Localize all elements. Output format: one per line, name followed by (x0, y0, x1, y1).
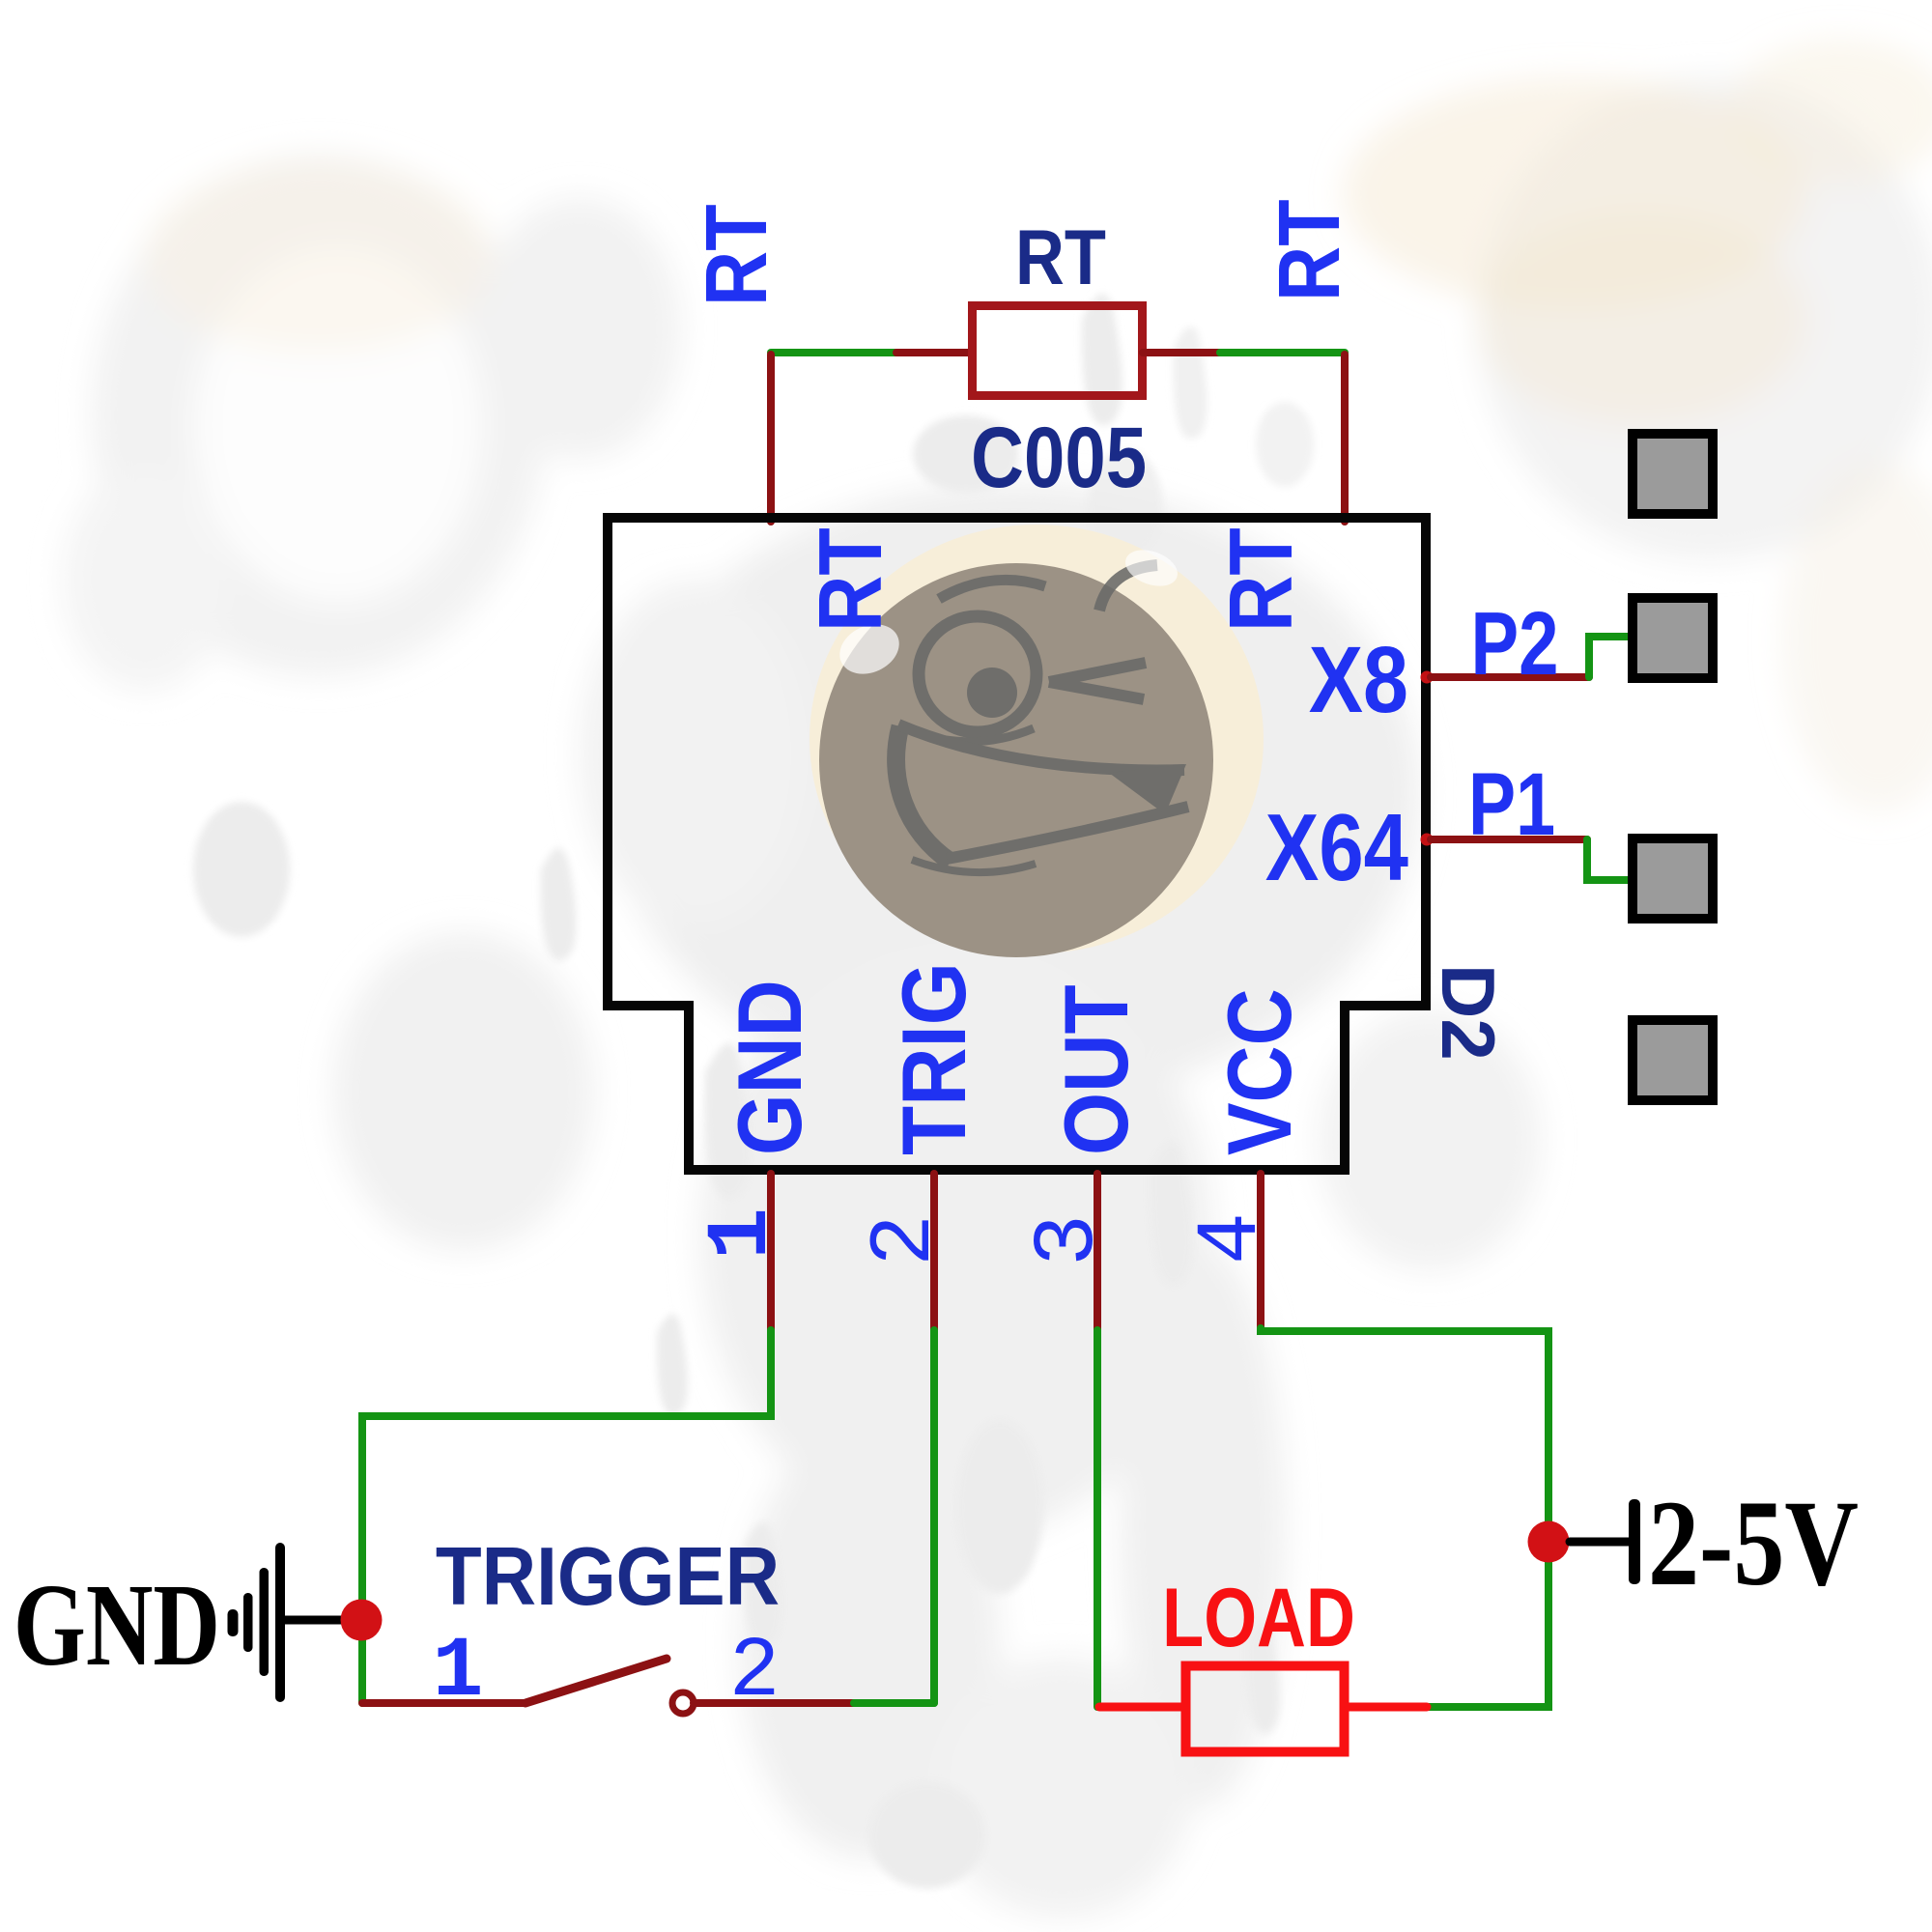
svg-text:2: 2 (729, 1625, 781, 1720)
watermark mascot face (819, 543, 1213, 957)
junction dot VCC supply node (1528, 1521, 1570, 1563)
pad square top (1633, 434, 1713, 514)
pin 3 dark-red wire (1094, 1174, 1101, 1332)
resistor RT (973, 306, 1143, 396)
switch S1 contact circle (672, 1692, 694, 1714)
svg-text:VCC: VCC (1208, 988, 1311, 1155)
pin X64 junction dot (1421, 834, 1434, 846)
svg-text:C005: C005 (971, 409, 1147, 505)
resistor LOAD left lead (1099, 1703, 1181, 1712)
pad square P1 (1633, 838, 1713, 919)
switch S1 left wire (362, 1699, 526, 1707)
svg-text:LOAD: LOAD (1162, 1571, 1355, 1663)
svg-text:1: 1 (694, 1207, 792, 1260)
svg-text:RT: RT (1211, 527, 1311, 632)
svg-text:RT: RT (1015, 213, 1106, 301)
switch S1 arm (526, 1659, 667, 1703)
svg-text:2: 2 (857, 1214, 955, 1266)
svg-text:2-5V: 2-5V (1648, 1476, 1859, 1611)
wire TRIG net green from pin2 (930, 1330, 938, 1703)
ground symbol bar 4 (275, 1543, 285, 1702)
wire RT left green segment (771, 349, 896, 356)
wire VCC net green from pin4 (1261, 1328, 1548, 1707)
wire RT left vertical to IC (767, 355, 775, 522)
resistor LOAD right lead (1349, 1703, 1427, 1712)
pad square P2 (1633, 598, 1713, 678)
supply 2-5V terminal bar (1629, 1499, 1640, 1584)
wire RT right dark-red segment (1143, 349, 1220, 356)
svg-text:4: 4 (1183, 1212, 1282, 1264)
svg-text:GND: GND (719, 980, 821, 1155)
wire RT right vertical to IC (1341, 355, 1349, 522)
svg-text:D2: D2 (1426, 964, 1511, 1061)
svg-text:TRIGGER: TRIGGER (436, 1531, 780, 1623)
svg-text:1: 1 (433, 1625, 484, 1720)
pad square bottom (1633, 1020, 1713, 1100)
ground symbol bar 1 (228, 1609, 239, 1636)
svg-text:P1: P1 (1468, 754, 1555, 854)
wire switch to TRIG green (854, 1699, 934, 1707)
switch S1 right wire (694, 1699, 854, 1707)
junction dot GND node (341, 1600, 383, 1641)
svg-text:GND: GND (14, 1559, 220, 1690)
wire X8 green to pad P2 (1589, 637, 1634, 677)
pin 2 dark-red wire (930, 1174, 938, 1332)
svg-text:RT: RT (1260, 199, 1357, 301)
ground symbol bar 3 (260, 1568, 270, 1676)
ground symbol bar 2 (243, 1593, 253, 1652)
wire RT left dark-red segment (896, 349, 972, 356)
pin 1 dark-red wire (767, 1174, 775, 1332)
wire X8 dark-red (1431, 673, 1589, 681)
svg-text:X64: X64 (1265, 796, 1409, 901)
svg-text:RT: RT (687, 204, 784, 306)
IC U1 body outline (608, 518, 1426, 1170)
svg-text:X8: X8 (1309, 629, 1408, 733)
watermark white splash bits on face (832, 615, 907, 684)
ground symbol lead (284, 1616, 343, 1625)
wire X64 green to pad P1 (1587, 839, 1634, 880)
svg-text:OUT: OUT (1044, 984, 1147, 1155)
wire GND net green from pin1 (362, 1330, 771, 1703)
watermark mascot halo (810, 525, 1264, 953)
supply 2-5V lead (1570, 1538, 1629, 1547)
resistor LOAD body (1186, 1666, 1345, 1752)
watermark splash droplets (193, 294, 1314, 1889)
wire RT right green segment (1220, 349, 1345, 356)
pin X8 junction dot (1421, 671, 1434, 684)
wire OUT net green from pin3 (1094, 1330, 1101, 1707)
wire X64 dark-red (1431, 836, 1587, 843)
pin 4 dark-red wire (1257, 1174, 1264, 1330)
svg-text:P2: P2 (1471, 593, 1559, 694)
svg-text:TRIG: TRIG (882, 962, 984, 1155)
svg-text:RT: RT (801, 527, 900, 632)
svg-text:3: 3 (1020, 1214, 1119, 1266)
